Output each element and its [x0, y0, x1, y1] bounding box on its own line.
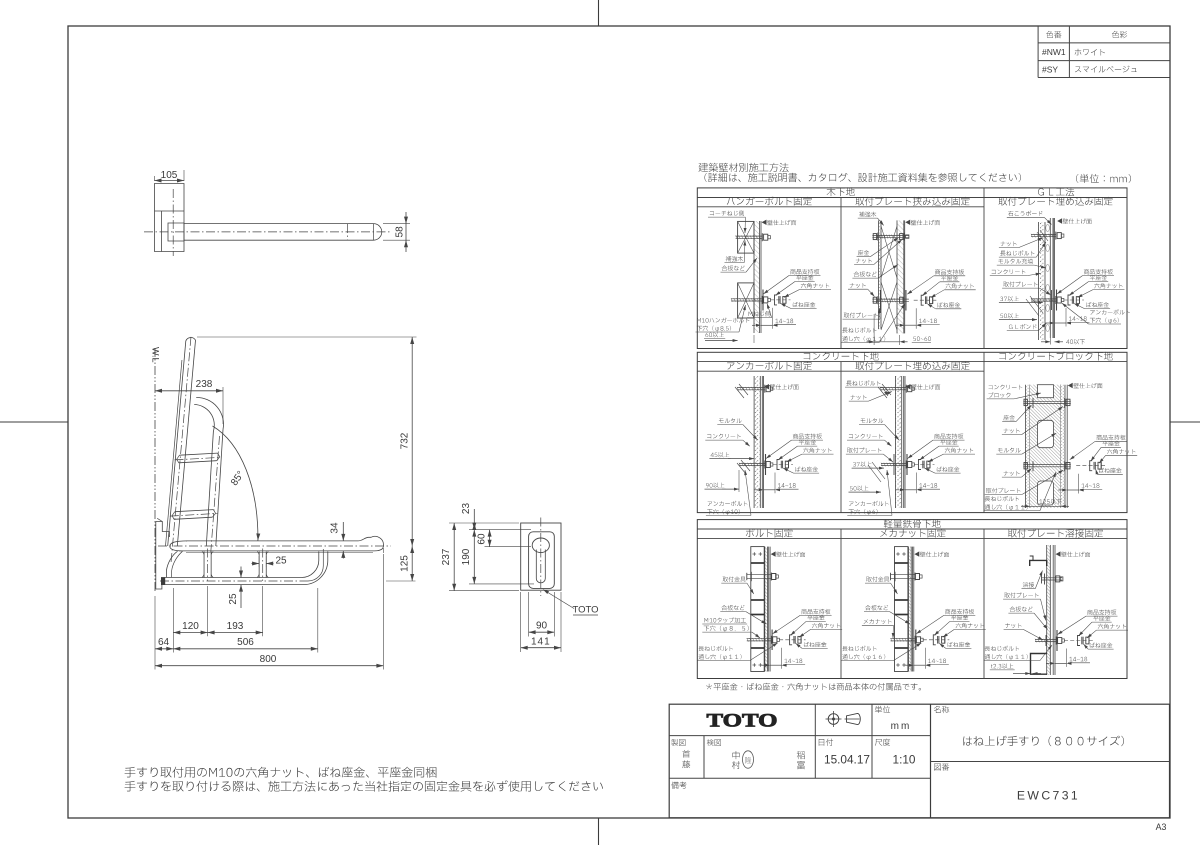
top view: rail tube [184, 224, 382, 241]
dim 125 [386, 580, 416, 582]
C3 top angle bracket [1030, 560, 1047, 566]
sheet center tick left [0, 421, 68, 423]
drafter names [682, 750, 690, 758]
third angle projection symbol [828, 714, 839, 725]
svg-text:1:10: 1:10 [893, 753, 916, 767]
TOTO mark label [543, 590, 574, 609]
title block labels [875, 706, 890, 713]
A3 GL bond dabs [1046, 224, 1050, 231]
dim 732 [197, 336, 417, 338]
A3 lower bolt [1031, 298, 1056, 300]
top view: wall plate [155, 184, 185, 252]
support bar wall cap [161, 578, 164, 585]
svg-text:TOTO: TOTO [707, 711, 778, 732]
arm rung upper [180, 453, 218, 455]
front view: inner cover plate [529, 532, 555, 589]
svg-text:64: 64 [158, 637, 170, 648]
B3 labels [1068, 383, 1072, 387]
color table [1037, 26, 1039, 78]
installation table titles [699, 163, 789, 172]
cell A1 hanger bolt on wood [754, 221, 760, 333]
cell B3 concrete block wall [1026, 385, 1030, 508]
front view dims [449, 522, 519, 524]
rear strut [258, 552, 260, 578]
A3 labels [1008, 211, 1042, 217]
dim 85 deg [213, 426, 258, 541]
dim 237 [453, 523, 455, 591]
svg-text:732: 732 [400, 432, 411, 449]
svg-text:15.04.17: 15.04.17 [824, 753, 870, 767]
product name [963, 736, 1124, 746]
group headers [827, 187, 855, 196]
dim 25 support bar [240, 567, 242, 578]
dim 60 [489, 530, 491, 547]
flip-up arm outer tube [168, 338, 196, 546]
A1 lower bolt [731, 298, 762, 300]
svg-text:90: 90 [536, 621, 548, 632]
installation table grid [697, 188, 1127, 349]
dim 238 [222, 387, 224, 424]
dim 190 [473, 530, 475, 584]
dim 800 [155, 665, 383, 667]
cell C2 mechanical nut on steel [895, 547, 908, 672]
dim 506 [173, 648, 317, 650]
dim 193 [208, 632, 263, 634]
notes text [125, 767, 437, 778]
dim 23 [473, 509, 475, 530]
B2 lower bolt [881, 462, 906, 464]
dimension 58 [383, 223, 410, 225]
svg-text:120: 120 [182, 621, 199, 632]
arm rung lower [175, 510, 214, 512]
svg-text:W.L: W.L [151, 347, 161, 363]
A2 dim 50~60 [873, 314, 875, 345]
dim 90 [528, 592, 530, 637]
front view: folded bar slot [536, 550, 545, 583]
svg-text:125: 125 [400, 555, 411, 572]
svg-text:238: 238 [196, 379, 213, 390]
svg-text:141: 141 [531, 636, 551, 647]
A2 hatched finish strip [897, 220, 904, 333]
svg-text:TOTO: TOTO [572, 605, 598, 616]
lower support bar [165, 577, 302, 579]
top view: pivot bracket [168, 223, 184, 241]
front view: tube oval [532, 538, 549, 553]
B3 block cores (white) [1038, 420, 1054, 447]
A1 labels [767, 220, 796, 225]
cell B2 embedded plate on concrete [896, 376, 902, 508]
B2 labels [911, 384, 940, 389]
A2 cavity X bracing [881, 226, 897, 278]
svg-text:25: 25 [275, 555, 287, 566]
C3 t2.3 dim [991, 663, 1013, 668]
sheet center tick bottom [598, 818, 600, 845]
svg-text:58: 58 [395, 226, 406, 238]
main grab bar tube [179, 536, 383, 551]
B1 labels [770, 384, 799, 389]
sheet center tick top [598, 0, 600, 26]
arm inner leg [216, 430, 223, 547]
svg-text:#NW1: #NW1 [1042, 47, 1066, 57]
A1 studs [738, 221, 754, 253]
arm handle bend [196, 397, 223, 429]
cell B1 anchor bolt on concrete [754, 376, 760, 508]
dim 34 [342, 522, 344, 541]
title block [669, 704, 1169, 818]
svg-text:237: 237 [441, 548, 452, 565]
svg-text:60: 60 [477, 533, 488, 545]
B3 dim 125以下 [1029, 508, 1031, 511]
sheet center tick right [1170, 421, 1200, 423]
dim 25 strut [258, 556, 260, 567]
B3 upper through-bolt [1023, 400, 1071, 402]
cell C1 bolt fix on steel [751, 547, 764, 672]
B2 upper bolt [880, 387, 906, 389]
cell C3 welded plate on steel [1047, 545, 1051, 675]
svg-text:105: 105 [161, 170, 178, 181]
svg-text:#SY: #SY [1042, 64, 1058, 74]
front view: plate outline [521, 523, 561, 590]
svg-text:34: 34 [330, 522, 341, 534]
front view: center line [540, 518, 542, 597]
A2 lower bolt [872, 298, 909, 300]
bar center line [158, 545, 391, 547]
wall line W.L. [154, 348, 156, 592]
C3 bottom angle bracket [1031, 654, 1047, 675]
bottom dims [154, 596, 156, 670]
svg-text:800: 800 [260, 654, 277, 665]
accessories note [706, 683, 921, 691]
front strut [203, 552, 205, 578]
A1 upper bolt [736, 235, 762, 237]
dimension 105 [154, 176, 156, 181]
B1 lower anchor [739, 462, 765, 464]
svg-text:25: 25 [228, 593, 239, 605]
pivot housing [170, 541, 187, 551]
arm center line [171, 335, 191, 562]
A3 dim 40以下 [1049, 338, 1051, 345]
svg-text:193: 193 [227, 621, 244, 632]
A2 labels [911, 220, 940, 225]
svg-text:506: 506 [237, 637, 254, 648]
dim 64 [155, 648, 173, 650]
A2 upper bolt [872, 235, 909, 237]
C3 upper bolt [1042, 577, 1063, 579]
cell A3 GL bond plate [1039, 222, 1046, 340]
C3 labels [1061, 552, 1090, 557]
mount plate side profile [156, 522, 170, 538]
svg-text:EWC731: EWC731 [1017, 788, 1080, 802]
B1 upper anchor [737, 387, 765, 389]
dim 141 [520, 592, 522, 652]
top view: center lines [144, 231, 391, 233]
A3 upper bolt [1031, 234, 1056, 236]
A3 gypsum board [1049, 218, 1051, 338]
C3 lower bolt [1035, 638, 1056, 640]
svg-text:A3: A3 [1156, 822, 1167, 832]
dim 120 [173, 632, 207, 634]
B3 lower through-bolt [1023, 464, 1071, 466]
svg-text:mm: mm [891, 721, 912, 732]
svg-text:23: 23 [461, 503, 472, 515]
A2 left board (dotted) [878, 220, 881, 329]
svg-text:190: 190 [461, 548, 472, 565]
